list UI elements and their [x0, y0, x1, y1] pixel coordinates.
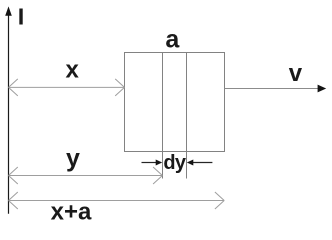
x+a dimension arrow: [9, 192, 225, 209]
svg-text:I: I: [18, 4, 25, 30]
svg-text:x+a: x+a: [51, 199, 92, 226]
v arrow: [225, 88, 319, 90]
svg-text:y: y: [66, 144, 80, 172]
x dimension arrow: [9, 79, 125, 96]
y dimension arrow: [9, 167, 163, 184]
svg-text:v: v: [289, 60, 303, 87]
svg-text:dy: dy: [163, 152, 186, 174]
dy right arrow: [193, 162, 213, 164]
svg-text:a: a: [165, 26, 180, 54]
wire (current-carrying conductor): [8, 12, 10, 214]
dy left arrow: [142, 162, 157, 164]
wire current arrowhead: [5, 6, 12, 15]
strip line left: [162, 53, 164, 179]
v arrowhead: [318, 85, 327, 93]
square loop: [125, 53, 225, 152]
strip line right: [186, 53, 188, 179]
svg-text:x: x: [66, 56, 80, 83]
